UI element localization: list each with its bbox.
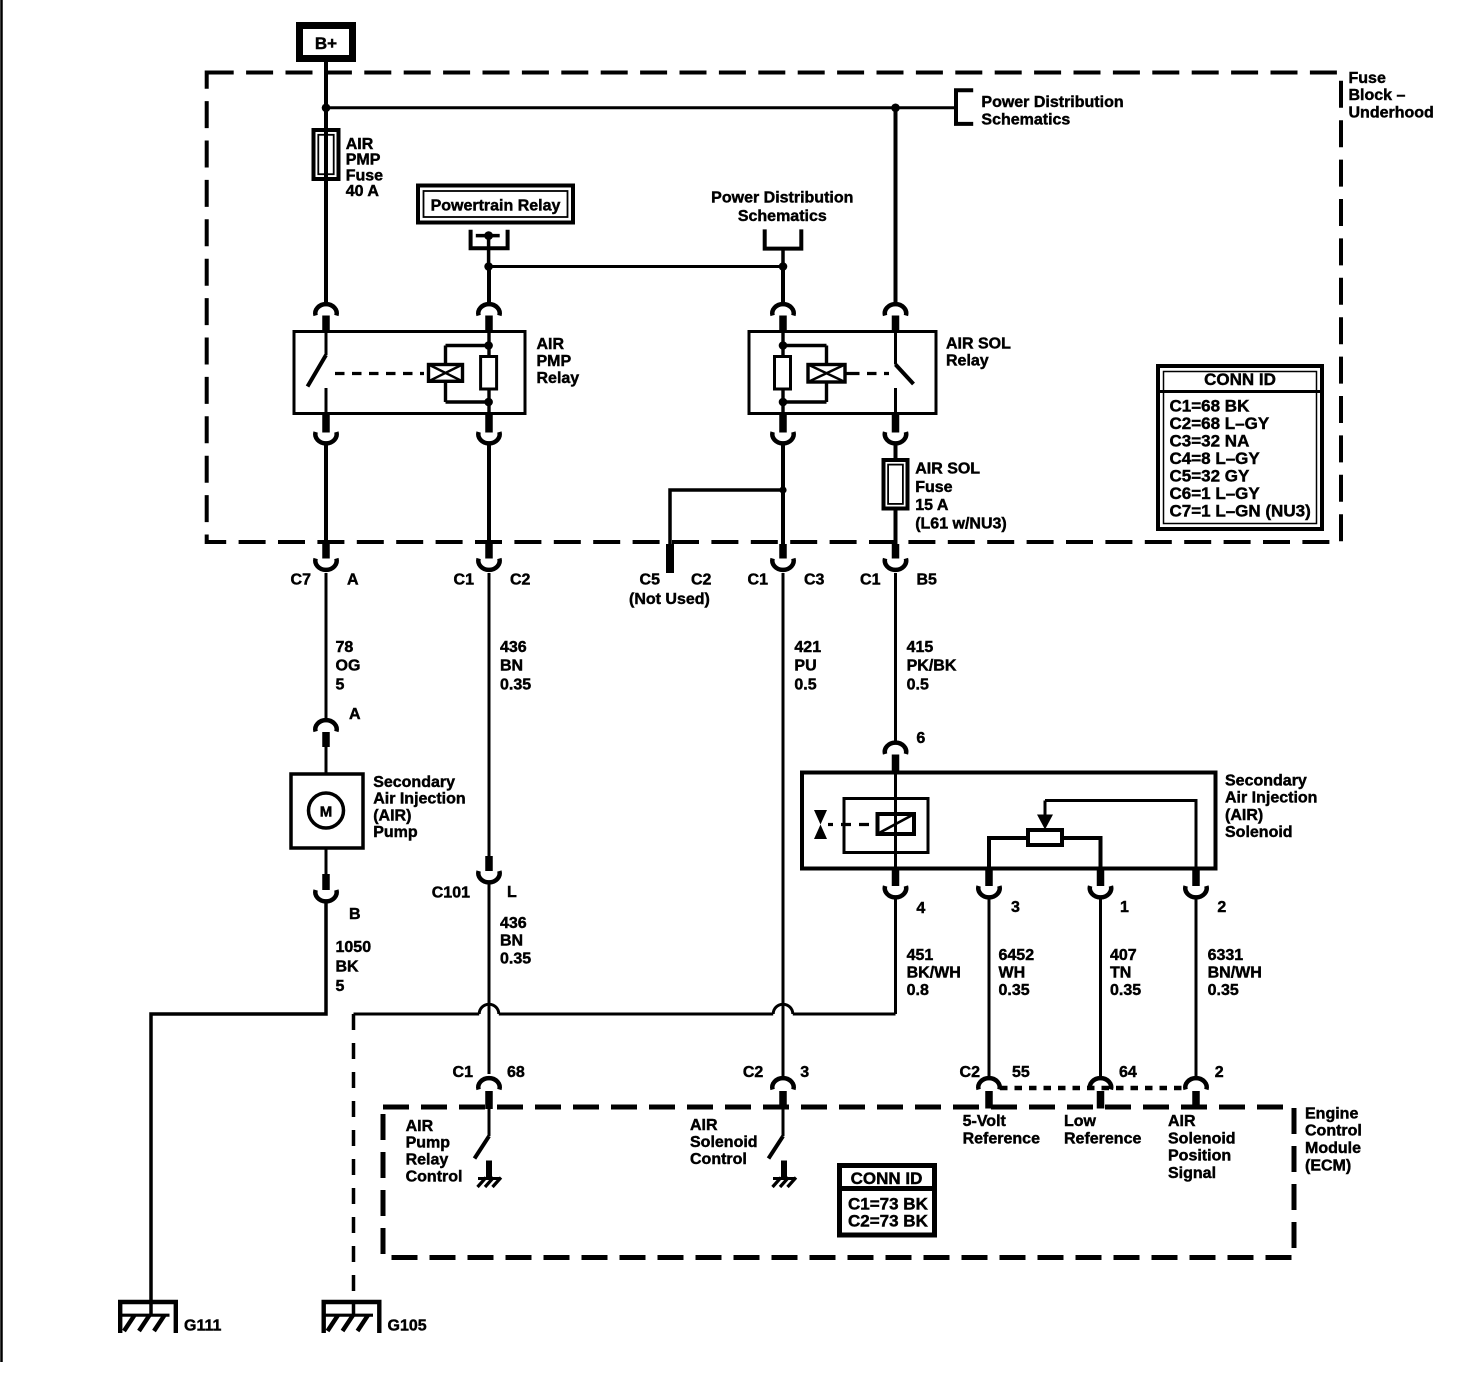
AIR PMP relay pin 87 connector — [315, 414, 336, 444]
relay AIR PMP box — [294, 332, 525, 414]
ECM ground (pump relay control) — [478, 1161, 502, 1188]
fuse AIR PMP 40A — [314, 130, 339, 302]
svg-text:Relay: Relay — [537, 370, 580, 387]
svg-text:C5: C5 — [640, 571, 661, 588]
table CONN ID fuse block — [1158, 366, 1322, 529]
svg-text:B: B — [349, 906, 361, 923]
svg-text:3: 3 — [800, 1064, 809, 1081]
wire AIR PMP relay 87 to C7 — [324, 443, 328, 544]
label Secondary Air Injection (AIR) Solenoid — [1225, 772, 1317, 841]
svg-text:BN/WH: BN/WH — [1208, 964, 1262, 981]
connector ECM C1 pin 68 — [453, 1064, 525, 1109]
svg-text:Module: Module — [1305, 1140, 1361, 1157]
svg-text:Power Distribution: Power Distribution — [711, 190, 853, 207]
svg-text:G111: G111 — [184, 1317, 221, 1334]
svg-text:B5: B5 — [917, 571, 938, 588]
AIR SOL relay coil pin wires — [781, 332, 784, 414]
svg-text:C2=68 L–GY: C2=68 L–GY — [1170, 414, 1270, 433]
connector C5 pin C2 (not used) — [640, 544, 712, 588]
ground G105 — [322, 1302, 427, 1334]
svg-text:Engine: Engine — [1305, 1105, 1358, 1122]
svg-text:BK/WH: BK/WH — [907, 964, 961, 981]
solenoid valve dashed actuation — [828, 823, 877, 826]
svg-text:Solenoid: Solenoid — [690, 1134, 758, 1151]
svg-text:C2=73 BK: C2=73 BK — [848, 1212, 929, 1231]
AIR PMP relay coil wiring — [446, 346, 489, 403]
solenoid AIR box — [802, 773, 1216, 869]
svg-text:AIR SOL: AIR SOL — [915, 461, 980, 478]
svg-text:6: 6 — [916, 730, 925, 747]
label wire 1050 BK 5 — [336, 939, 372, 995]
label AIR PMP Fuse 40 A — [346, 136, 383, 200]
svg-text:Solenoid: Solenoid — [1168, 1130, 1236, 1147]
svg-text:Secondary: Secondary — [1225, 772, 1307, 789]
page left border — [0, 0, 3, 1362]
wire 436 BN to C101 — [488, 573, 491, 856]
svg-text:Secondary: Secondary — [373, 774, 455, 791]
svg-text:C1: C1 — [454, 571, 475, 588]
svg-text:(ECM): (ECM) — [1305, 1158, 1351, 1175]
svg-text:PMP: PMP — [537, 353, 572, 370]
svg-text:BN: BN — [500, 658, 523, 675]
svg-text:C2: C2 — [691, 571, 712, 588]
svg-text:Power Distribution: Power Distribution — [981, 94, 1123, 111]
wire top bus to AIR SOL relay branch — [326, 106, 956, 109]
AIR SOL relay pin 85 connector — [772, 414, 793, 444]
svg-text:Control: Control — [690, 1151, 747, 1168]
svg-text:C2: C2 — [510, 571, 531, 588]
wire feed down to AIR SOL relay switch — [894, 108, 898, 302]
svg-text:G105: G105 — [388, 1317, 427, 1334]
connector C7 pin A — [291, 544, 359, 588]
svg-text:Underhood: Underhood — [1349, 104, 1434, 121]
svg-text:PMP: PMP — [346, 152, 381, 169]
svg-text:0.35: 0.35 — [500, 677, 531, 694]
label 5-Volt Reference — [963, 1113, 1040, 1147]
label Low Reference — [1064, 1113, 1141, 1147]
wire 6452 WH to ECM 55 — [988, 899, 991, 1076]
svg-text:Schematics: Schematics — [738, 208, 827, 225]
svg-text:OG: OG — [336, 658, 361, 675]
svg-text:Schematics: Schematics — [981, 111, 1070, 128]
wire pin A to pump — [325, 747, 328, 774]
svg-text:C1: C1 — [453, 1064, 474, 1081]
AIR SOL relay coil wiring — [783, 346, 827, 403]
label AIR SOL Fuse 15 A (L61 w/NU3) — [915, 461, 1007, 533]
node B+ junction at fuse — [322, 104, 331, 113]
AIR PMP relay pin 30 connector — [315, 304, 336, 332]
svg-text:CONN ID: CONN ID — [851, 1169, 923, 1188]
svg-text:6452: 6452 — [999, 947, 1035, 964]
svg-text:A: A — [349, 706, 361, 723]
connector solenoid pin 6 — [885, 730, 926, 773]
AIR PMP relay coil pin wires — [487, 332, 490, 414]
connector C101 pin L — [432, 856, 517, 901]
svg-text:6331: 6331 — [1208, 947, 1244, 964]
wire C5 branch — [670, 490, 783, 544]
wire down to AIR SOL relay coil pin — [781, 267, 785, 303]
ECM AIR pump relay control switch — [475, 1109, 490, 1159]
svg-text:C3=32 NA: C3=32 NA — [1170, 432, 1250, 451]
svg-text:5-Volt: 5-Volt — [963, 1113, 1007, 1130]
wire down to AIR PMP relay coil pin — [487, 267, 491, 303]
sensor wiper arrow — [1037, 801, 1053, 830]
label Engine Control Module (ECM) — [1305, 1105, 1362, 1174]
svg-text:C1: C1 — [748, 571, 769, 588]
label wire 436 BN 0.35 (below C101) — [500, 915, 531, 968]
svg-text:0.8: 0.8 — [907, 982, 929, 999]
label wire 78 OG 5 — [336, 639, 361, 694]
svg-text:Air Injection: Air Injection — [373, 791, 465, 808]
power distribution cup symbol — [765, 229, 802, 266]
svg-text:CONN ID: CONN ID — [1204, 370, 1276, 389]
svg-text:C1: C1 — [860, 571, 881, 588]
sensor resistor lead to pin 3 — [989, 838, 1028, 869]
svg-text:C7=1 L–GN (NU3): C7=1 L–GN (NU3) — [1170, 501, 1311, 520]
svg-text:Control: Control — [406, 1169, 463, 1186]
svg-text:1: 1 — [1120, 899, 1129, 916]
wire AIR PMP relay 85 to C1 — [487, 443, 491, 544]
svg-text:(AIR): (AIR) — [373, 807, 411, 824]
label wire 421 PU 0.5 — [794, 639, 821, 694]
svg-text:AIR: AIR — [1168, 1113, 1196, 1130]
connector ECM C2 pin 55 — [960, 1064, 1030, 1109]
connector solenoid pin 4 — [885, 871, 926, 917]
svg-text:1050: 1050 — [336, 939, 372, 956]
connector pump pin B — [315, 848, 360, 923]
wire 415 PK/BK to solenoid — [894, 573, 897, 741]
solenoid coil — [878, 814, 915, 834]
svg-text:AIR: AIR — [346, 136, 374, 153]
sensor resistor lead to pin 1 — [1062, 838, 1101, 869]
svg-text:(Not Used): (Not Used) — [629, 591, 710, 608]
label AIR Solenoid Position Signal — [1168, 1113, 1236, 1182]
AIR SOL relay pin 87 connector — [885, 414, 906, 444]
ECM AIR solenoid control switch — [769, 1109, 784, 1159]
connector solenoid pin 2 — [1185, 871, 1226, 916]
fuse AIR SOL 15A — [884, 460, 908, 509]
label wire 436 BN 0.35 — [500, 639, 531, 694]
svg-text:2: 2 — [1215, 1064, 1224, 1081]
motor AIR pump M — [291, 774, 363, 848]
powertrain relay output cup symbol — [471, 230, 508, 267]
svg-text:B+: B+ — [315, 34, 337, 53]
connector C1 pin C2 — [454, 544, 531, 588]
solenoid coil outer box — [844, 799, 928, 853]
svg-text:C6=1 L–GY: C6=1 L–GY — [1170, 484, 1261, 503]
svg-text:0.5: 0.5 — [794, 677, 816, 694]
AIR PMP relay coil — [429, 365, 463, 382]
wire 78 OG 5 to pump — [325, 573, 328, 719]
svg-text:Fuse: Fuse — [915, 479, 952, 496]
label wire 6452 WH 0.35 — [999, 947, 1035, 999]
svg-text:Block –: Block – — [1349, 87, 1406, 104]
svg-text:436: 436 — [500, 915, 527, 932]
off-page connector bracket power distribution — [956, 90, 973, 124]
svg-text:(AIR): (AIR) — [1225, 807, 1263, 824]
label AIR PMP Relay — [537, 336, 580, 387]
svg-text:Fuse: Fuse — [346, 167, 383, 184]
label wire 6331 BN/WH 0.35 — [1208, 947, 1262, 999]
svg-text:436: 436 — [500, 639, 527, 656]
svg-text:WH: WH — [999, 964, 1026, 981]
svg-text:Reference: Reference — [1064, 1130, 1141, 1147]
connector solenoid pin 3 — [978, 871, 1020, 916]
svg-text:15 A: 15 A — [915, 497, 949, 514]
label Power Distribution Schematics (top right) — [981, 94, 1123, 128]
connector solenoid pin 1 — [1090, 871, 1129, 916]
label wire 415 PK/BK 0.5 — [907, 639, 957, 694]
svg-text:Reference: Reference — [963, 1130, 1040, 1147]
svg-text:451: 451 — [907, 947, 934, 964]
node power distribution tie junction — [779, 262, 788, 271]
svg-text:AIR: AIR — [406, 1118, 434, 1135]
svg-text:68: 68 — [507, 1064, 525, 1081]
svg-text:0.35: 0.35 — [500, 950, 531, 967]
svg-text:0.5: 0.5 — [907, 677, 929, 694]
svg-text:C4=8 L–GY: C4=8 L–GY — [1170, 449, 1261, 468]
svg-text:0.35: 0.35 — [1110, 982, 1141, 999]
label AIR SOL Relay — [946, 335, 1011, 369]
svg-text:C2: C2 — [743, 1064, 764, 1081]
AIR SOL relay coil — [808, 365, 845, 383]
svg-text:0.35: 0.35 — [999, 982, 1030, 999]
svg-text:M: M — [320, 803, 333, 820]
table CONN ID ECM — [837, 1166, 937, 1236]
AIR SOL relay actuation dashed link — [845, 372, 889, 375]
svg-text:Position: Position — [1168, 1148, 1231, 1165]
svg-text:C1=68 BK: C1=68 BK — [1170, 397, 1251, 416]
svg-text:Signal: Signal — [1168, 1165, 1216, 1182]
wire 436 BN C101 to ECM — [488, 884, 491, 1074]
svg-text:C7: C7 — [291, 571, 312, 588]
svg-text:Powertrain Relay: Powertrain Relay — [431, 197, 561, 214]
label Fuse Block - Underhood — [1349, 70, 1434, 122]
svg-text:A: A — [347, 571, 359, 588]
AIR PMP relay pin 86 connector — [478, 304, 499, 332]
wire ground bus 451 with crossovers — [354, 1004, 896, 1014]
svg-text:TN: TN — [1110, 964, 1131, 981]
svg-text:BK: BK — [336, 959, 360, 976]
wire wiper to pin 2 — [1045, 801, 1196, 869]
wire dashed drop to G105 — [352, 1014, 356, 1303]
node powertrain relay tie junction — [484, 262, 493, 271]
svg-text:C3: C3 — [804, 571, 825, 588]
solenoid valve symbol — [814, 810, 827, 839]
svg-text:C2: C2 — [960, 1064, 981, 1081]
node junction AIR SOL relay feed — [891, 104, 900, 113]
connector ECM pin 2 — [1185, 1064, 1224, 1109]
connector ECM pin 64 — [1090, 1064, 1137, 1109]
svg-text:40 A: 40 A — [346, 183, 380, 200]
svg-text:Pump: Pump — [406, 1135, 451, 1152]
svg-text:407: 407 — [1110, 947, 1137, 964]
power feed B+ terminal — [300, 26, 353, 59]
svg-text:2: 2 — [1217, 899, 1226, 916]
AIR SOL relay resistor — [775, 357, 791, 390]
node AIR SOL relay coil bottom junction — [779, 398, 788, 407]
fuse block underhood dashed boundary — [207, 73, 1341, 543]
svg-text:64: 64 — [1119, 1064, 1137, 1081]
label wire 451 BK/WH 0.8 — [907, 947, 961, 999]
label Power Distribution Schematics (center) — [711, 190, 853, 225]
svg-text:PK/BK: PK/BK — [907, 658, 957, 675]
svg-text:C5=32 GY: C5=32 GY — [1170, 466, 1251, 485]
svg-text:BN: BN — [500, 933, 523, 950]
svg-text:PU: PU — [794, 658, 816, 675]
svg-text:5: 5 — [336, 677, 345, 694]
node AIR PMP relay coil top junction — [484, 341, 493, 350]
connector pump pin A — [315, 706, 361, 747]
connector C1 pin B5 — [860, 544, 937, 588]
svg-text:Control: Control — [1305, 1123, 1362, 1140]
ECM ground (solenoid control) — [773, 1161, 797, 1188]
connector C1 pin C3 — [748, 544, 825, 588]
wire solenoid feed through — [894, 773, 897, 869]
wire B+ to fuse — [324, 62, 328, 131]
svg-text:421: 421 — [794, 639, 821, 656]
powertrain relay reference box — [418, 186, 573, 223]
svg-text:0.35: 0.35 — [1208, 982, 1239, 999]
svg-text:Solenoid: Solenoid — [1225, 824, 1293, 841]
AIR PMP relay resistor — [481, 357, 497, 390]
svg-text:L: L — [507, 884, 517, 901]
AIR PMP relay switch — [308, 332, 327, 414]
label wire 407 TN 0.35 — [1110, 947, 1141, 999]
svg-text:AIR: AIR — [690, 1117, 718, 1134]
ground G111 — [118, 1302, 221, 1334]
svg-text:4: 4 — [916, 900, 925, 917]
svg-text:Relay: Relay — [406, 1152, 449, 1169]
label AIR Pump Relay Control — [406, 1118, 463, 1186]
svg-text:C101: C101 — [432, 884, 470, 901]
wire 1050 BK 5 to G111 — [151, 903, 326, 1303]
node AIR PMP relay coil bottom junction — [484, 398, 493, 407]
dotted connector link ECM pins — [1000, 1086, 1185, 1091]
svg-text:AIR SOL: AIR SOL — [946, 335, 1011, 352]
AIR SOL relay pin 86 connector — [772, 304, 793, 332]
wire AIR SOL fuse to B5 — [894, 509, 898, 545]
wire AIR SOL relay 87 to fuse — [894, 443, 898, 460]
solenoid position sensor resistor — [1028, 830, 1062, 845]
AIR SOL relay switch — [896, 332, 914, 414]
relay AIR SOL box — [749, 332, 936, 414]
node AIR SOL relay coil top junction — [779, 341, 788, 350]
node C5 branch junction — [779, 486, 786, 493]
AIR PMP relay pin 85 connector — [478, 414, 499, 444]
wire tie powertrain to power distribution — [489, 265, 783, 268]
wire 407 TN to ECM 64 — [1099, 899, 1102, 1076]
svg-text:Relay: Relay — [946, 352, 989, 369]
label Secondary Air Injection (AIR) Pump — [373, 774, 465, 841]
label (Not Used) — [629, 591, 710, 608]
svg-text:AIR: AIR — [537, 336, 565, 353]
wire 451 BK/WH to ground bus — [894, 899, 897, 1014]
svg-text:Pump: Pump — [373, 824, 418, 841]
svg-text:Air Injection: Air Injection — [1225, 790, 1317, 807]
AIR PMP relay actuation dashed link — [335, 372, 424, 375]
svg-text:(L61 w/NU3): (L61 w/NU3) — [915, 515, 1007, 532]
wire 6331 BN/WH to ECM 2 — [1195, 899, 1198, 1076]
svg-text:Low: Low — [1064, 1113, 1097, 1130]
svg-text:55: 55 — [1012, 1064, 1030, 1081]
label AIR Solenoid Control — [690, 1117, 758, 1168]
ECM dashed boundary box — [383, 1107, 1294, 1258]
svg-text:Fuse: Fuse — [1349, 70, 1386, 87]
wire 421 PU to ECM — [782, 573, 785, 1076]
svg-text:78: 78 — [336, 639, 354, 656]
svg-text:415: 415 — [907, 639, 934, 656]
svg-text:3: 3 — [1011, 899, 1020, 916]
AIR SOL relay pin 30 connector — [885, 304, 906, 332]
connector ECM C2 pin 3 — [743, 1064, 809, 1109]
wire AIR SOL relay 85 to C1 — [781, 443, 785, 544]
svg-text:5: 5 — [336, 978, 345, 995]
